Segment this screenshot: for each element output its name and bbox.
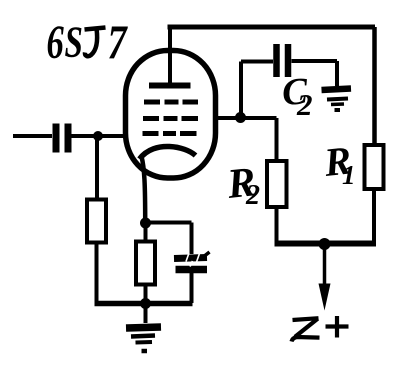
resistor R2 — [267, 161, 287, 207]
wire Ck bottom lead — [190, 273, 194, 303]
resistor R1 — [365, 145, 384, 189]
node Z output junction dot — [319, 238, 331, 250]
resistor Rk cathode — [136, 242, 155, 285]
svg-text:2: 2 — [245, 180, 260, 211]
wire cathode lead down — [142, 157, 146, 224]
tube V1 plate bar — [149, 83, 191, 89]
wire screen grid to node S — [214, 116, 241, 120]
capacitor Ck cathode bypass bottom plate — [176, 261, 208, 270]
wire Rg bottom to ground bus — [95, 243, 99, 302]
tube V1 plate lead up — [168, 28, 172, 84]
wire R1 bottom — [372, 189, 376, 244]
label R1 — [321, 137, 355, 190]
label Z+ — [292, 316, 349, 342]
ground GND1 symbol — [126, 303, 161, 351]
capacitor C1 input coupling — [56, 124, 68, 153]
wire node S right to R2 — [241, 118, 277, 161]
label R2 — [224, 159, 260, 211]
ground GND2 symbol — [322, 89, 352, 111]
tube V1 cathode arch — [140, 146, 196, 159]
label 6SJ7 — [47, 15, 129, 70]
wire ground bus bottom — [95, 301, 193, 307]
wire K to Rk — [144, 223, 148, 242]
svg-text:6: 6 — [47, 17, 64, 70]
tube V1 grid row 1 (suppressor) — [144, 100, 198, 105]
wire right side down to R1 — [372, 27, 377, 145]
tube V1 grid row 2 (screen) — [143, 116, 198, 121]
wire grid node down — [95, 136, 99, 200]
wire node S up to C2 — [241, 62, 273, 118]
wire Rk bottom to ground bus — [144, 285, 148, 304]
capacitor Ck cathode bypass top plate — [174, 252, 210, 262]
tube V1 envelope — [126, 51, 216, 179]
wire output bus bottom right — [275, 241, 377, 247]
capacitor C2 — [277, 44, 289, 77]
wire R2 bottom — [275, 207, 279, 244]
svg-text:S: S — [65, 18, 83, 67]
tube V1 grid row 3 (control grid) — [143, 131, 197, 136]
node S screen junction dot — [235, 112, 246, 123]
node K cathode junction dot — [140, 218, 151, 229]
node A junction dot (grid node) — [93, 131, 103, 141]
node G ground junction dot — [140, 298, 151, 309]
output arrow — [319, 244, 331, 311]
svg-text:7: 7 — [108, 15, 129, 70]
wire C2 right to ground — [292, 61, 338, 86]
wire K to bypass capacitor — [146, 223, 192, 255]
resistor Rg grid leak — [87, 200, 106, 243]
label C2 — [281, 70, 313, 122]
svg-text:2: 2 — [296, 87, 313, 122]
wire top bus — [168, 25, 376, 30]
label 6SJ7 letter J stroke — [85, 28, 106, 57]
wire C1 to grid — [72, 134, 129, 138]
wire input left — [13, 134, 52, 138]
svg-text:1: 1 — [342, 160, 356, 190]
